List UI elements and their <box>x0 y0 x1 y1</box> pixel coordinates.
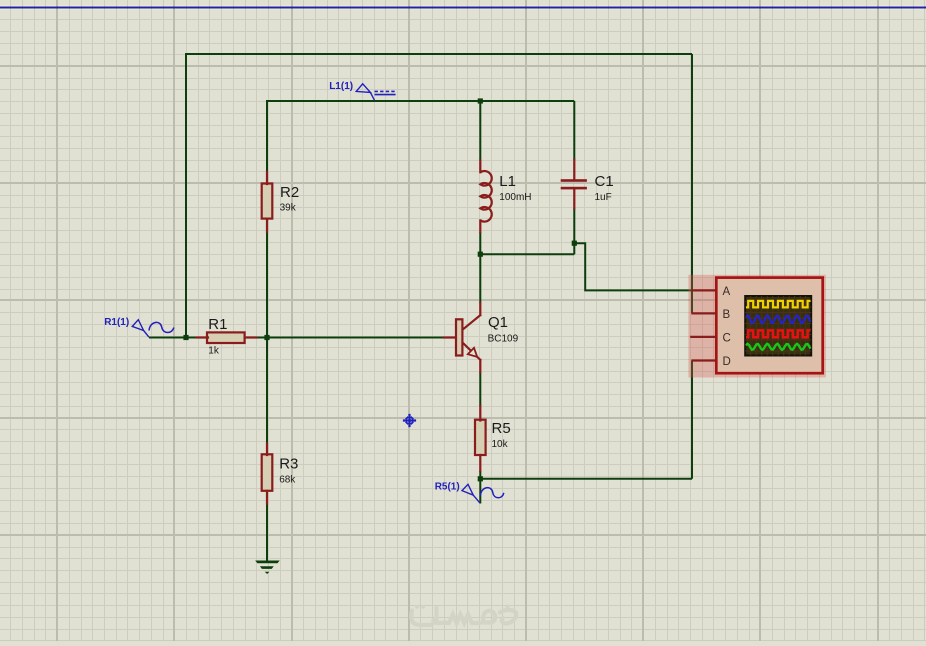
svg-text:BC109: BC109 <box>488 333 519 344</box>
svg-text:1uF: 1uF <box>595 192 612 203</box>
svg-text:68k: 68k <box>279 474 296 485</box>
svg-text:R3: R3 <box>279 455 298 472</box>
svg-text:R1: R1 <box>208 316 227 333</box>
svg-text:D: D <box>723 356 731 368</box>
svg-text:B: B <box>723 309 731 321</box>
svg-text:C1: C1 <box>595 173 614 190</box>
svg-text:R5(1): R5(1) <box>435 481 460 492</box>
svg-text:1k: 1k <box>208 346 220 357</box>
svg-text:Q1: Q1 <box>488 314 508 331</box>
svg-text:L1: L1 <box>499 173 516 190</box>
svg-text:100mH: 100mH <box>499 192 531 203</box>
svg-text:R1(1): R1(1) <box>104 317 129 328</box>
svg-text:R5: R5 <box>492 420 511 437</box>
svg-text:A: A <box>723 286 731 298</box>
svg-text:R2: R2 <box>280 184 299 201</box>
svg-text:L1(1): L1(1) <box>329 81 353 92</box>
svg-text:39k: 39k <box>280 203 297 214</box>
svg-text:C: C <box>723 333 731 345</box>
svg-text:10k: 10k <box>492 439 509 450</box>
